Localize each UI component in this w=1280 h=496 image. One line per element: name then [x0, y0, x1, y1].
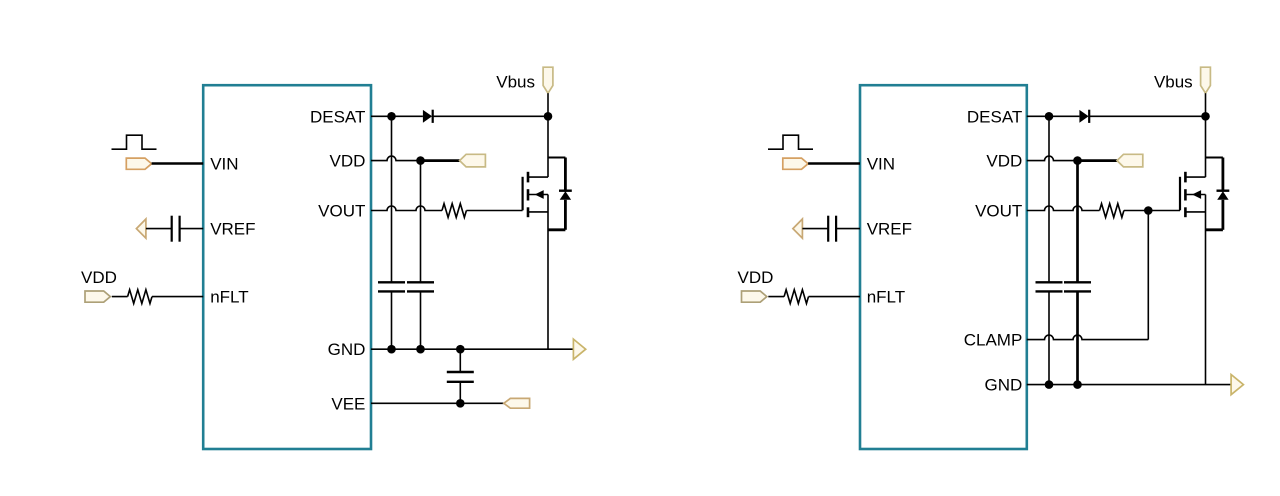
svg-text:VDD: VDD [986, 152, 1022, 171]
svg-text:VEE: VEE [331, 394, 365, 413]
svg-text:GND: GND [328, 340, 366, 359]
svg-text:CLAMP: CLAMP [964, 331, 1023, 350]
svg-text:VIN: VIN [867, 155, 895, 174]
svg-text:VOUT: VOUT [318, 202, 365, 221]
svg-text:nFLT: nFLT [210, 288, 248, 307]
svg-text:VDD: VDD [738, 268, 774, 287]
svg-text:VREF: VREF [210, 220, 255, 239]
svg-text:Vbus: Vbus [496, 73, 535, 92]
svg-text:GND: GND [985, 376, 1023, 395]
svg-text:Vbus: Vbus [1154, 73, 1193, 92]
svg-text:nFLT: nFLT [867, 288, 905, 307]
svg-text:VREF: VREF [867, 220, 912, 239]
svg-text:VOUT: VOUT [975, 202, 1022, 221]
svg-text:VDD: VDD [329, 152, 365, 171]
svg-text:DESAT: DESAT [967, 107, 1022, 126]
svg-text:VDD: VDD [81, 268, 117, 287]
svg-text:DESAT: DESAT [310, 107, 365, 126]
svg-text:VIN: VIN [210, 155, 238, 174]
